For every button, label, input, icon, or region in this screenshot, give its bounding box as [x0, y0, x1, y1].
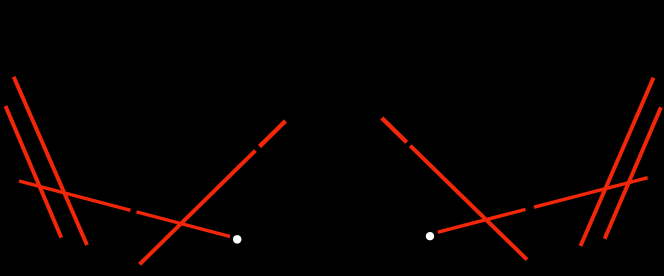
- ray D tip dash (left 45-degree ray upper dash): [260, 121, 286, 147]
- ray D' long segment (right 45-degree ray): [410, 146, 527, 260]
- ray D long segment (left 45-degree ray): [140, 151, 256, 265]
- ray C' segment 2 (right shallow ray, upper dash): [534, 178, 648, 208]
- point source dot right: [426, 232, 434, 240]
- ray A (left outer steep ray): [14, 77, 87, 245]
- ray B' (right inner steep ray): [605, 107, 661, 239]
- point source dot left: [233, 235, 242, 244]
- ray B (left inner steep ray): [6, 106, 62, 238]
- ray C segment 1 (left shallow ray, upper dash): [19, 181, 131, 210]
- ray C' segment 1 (right shallow ray, lower dash from source dot): [438, 209, 526, 232]
- ray C segment 2 (left shallow ray, lower dash toward source dot): [137, 212, 231, 237]
- ray A' (right outer steep ray): [581, 78, 654, 246]
- ray D' tip dash (right 45-degree ray upper dash): [382, 118, 407, 142]
